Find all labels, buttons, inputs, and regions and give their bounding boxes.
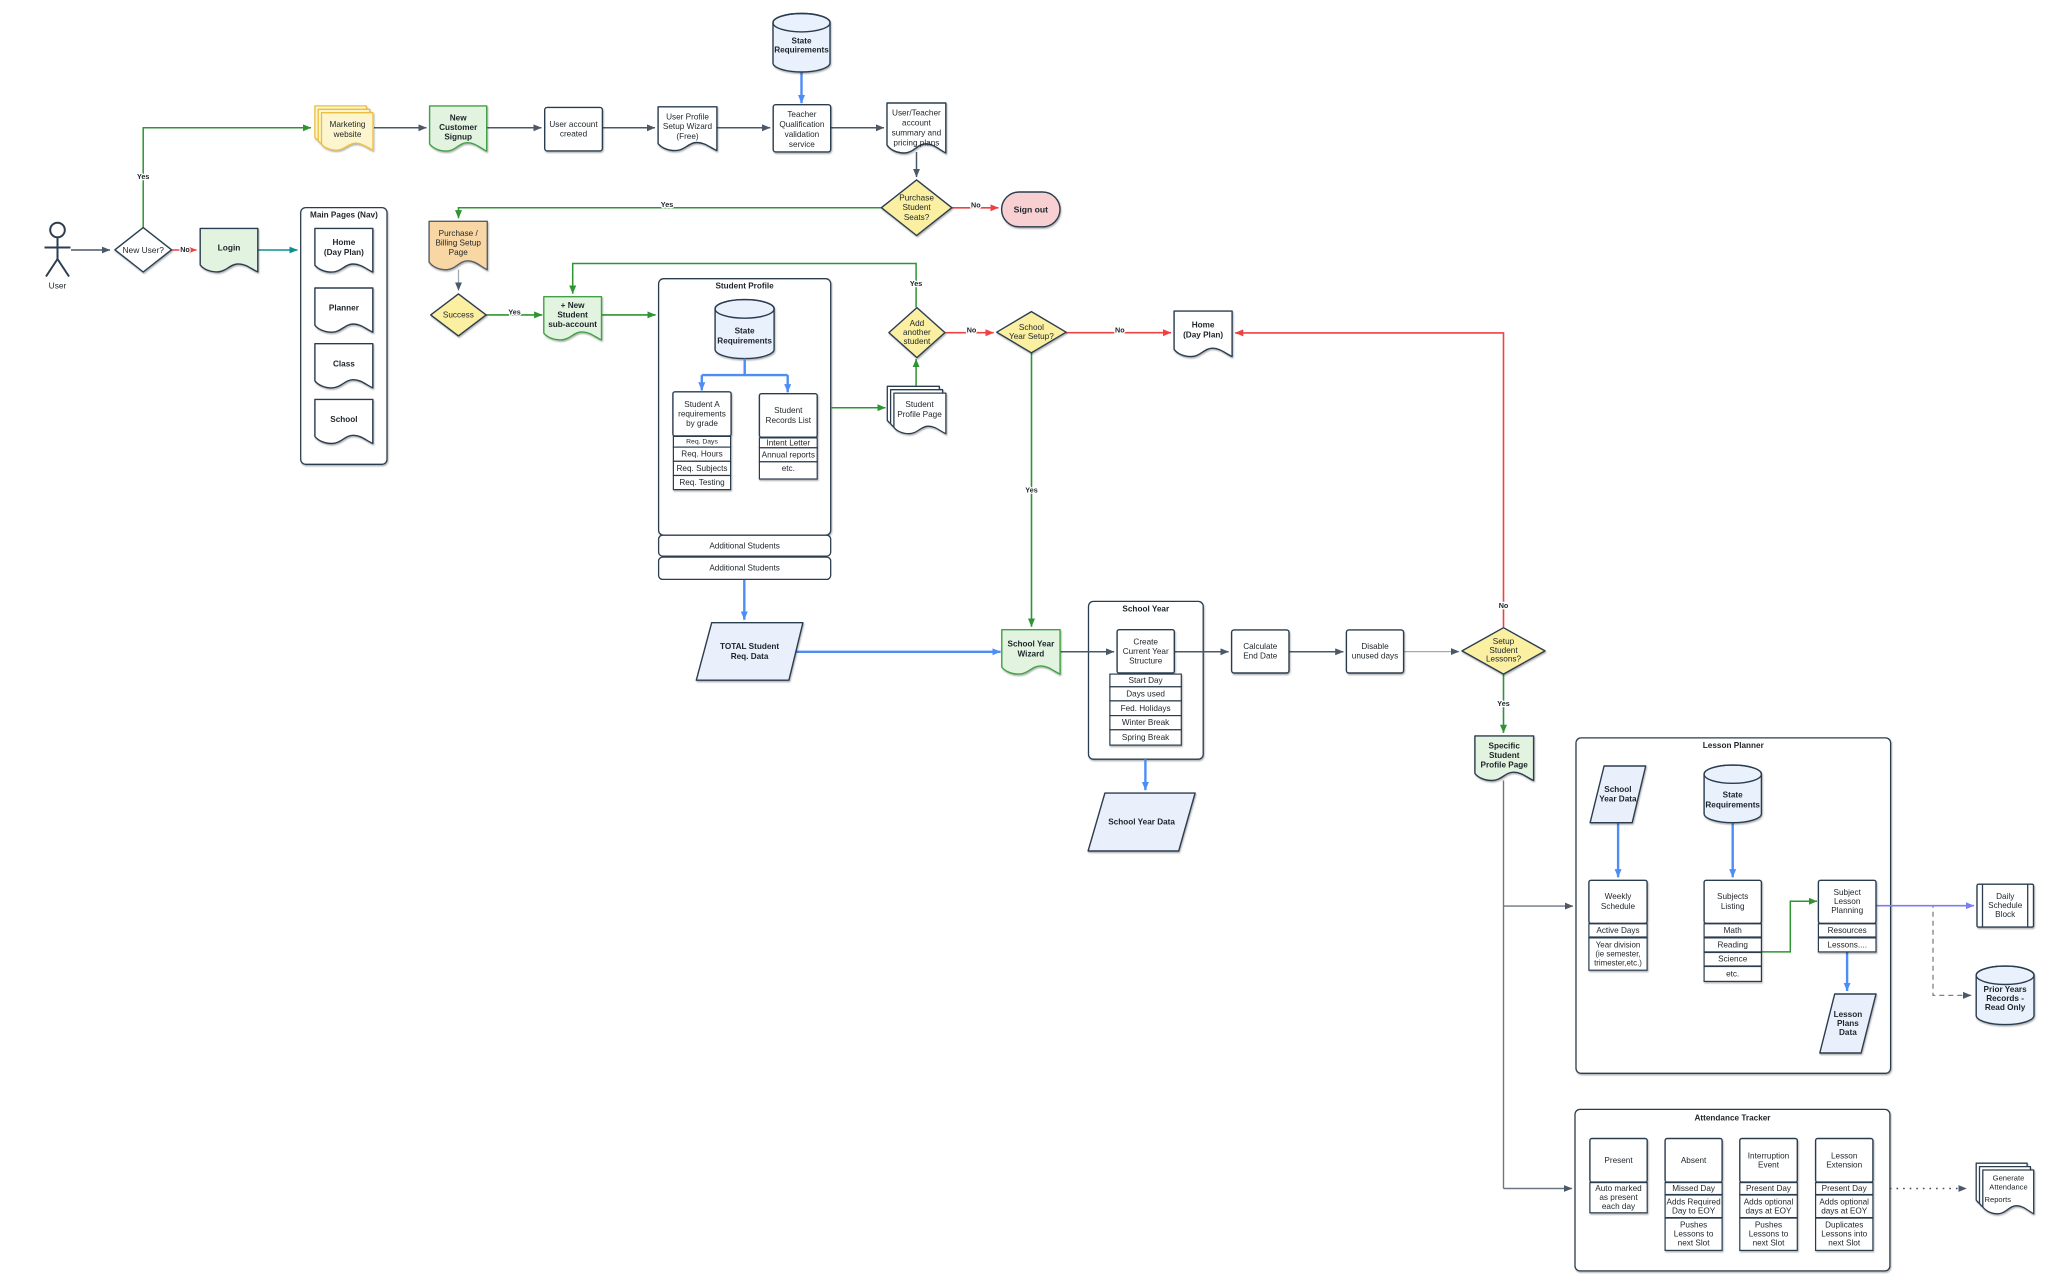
wire School Year Wizard to Create Current Year Structure (1060, 651, 1114, 653)
terminator Sign out (1002, 192, 1060, 227)
container Attendance Tracker (1575, 1109, 1890, 1271)
svg-text:CalculateEnd Date: CalculateEnd Date (1243, 642, 1278, 661)
container Student Profile (659, 279, 831, 536)
wire Attendance Tracker dotted to Generate Attendance Reports (1890, 1188, 1967, 1190)
svg-text:Yes: Yes (1025, 486, 1037, 495)
predefined process Daily Schedule Block (1977, 884, 2034, 927)
svg-text:Adds optionaldays at EOY: Adds optionaldays at EOY (1744, 1197, 1794, 1215)
process Disable unused days (1346, 630, 1403, 673)
wire New User? Yes up to Marketing website (143, 128, 311, 228)
process Teacher Qualification validation service (773, 105, 831, 152)
wire Success Yes to New Student sub-account (486, 314, 542, 316)
database Prior Years Records - Read Only (1976, 966, 2034, 1025)
svg-text:Reports: Reports (1985, 1195, 2012, 1204)
wire School Year Setup? Yes down to School Year Wizard (1031, 353, 1033, 627)
svg-text:Active Days: Active Days (1596, 926, 1639, 935)
wire New User? No to Login (172, 249, 197, 251)
wire New Student sub-account to Student Profile (602, 314, 656, 316)
database State Requirements (773, 14, 830, 73)
document Purchase / Billing Setup Page (429, 221, 487, 269)
svg-text:School Year: School Year (1122, 605, 1170, 614)
wire Teacher Qualification to User/Teacher summary (831, 127, 884, 129)
rows weekly schedule fields (1589, 924, 1647, 970)
process Lesson Extension (1816, 1139, 1873, 1183)
svg-text:Present Day: Present Day (1822, 1184, 1868, 1193)
svg-text:PurchaseStudentSeats?: PurchaseStudentSeats? (899, 194, 934, 222)
svg-text:Winter Break: Winter Break (1122, 718, 1170, 727)
svg-text:School Year Data: School Year Data (1108, 818, 1175, 827)
svg-text:No: No (1499, 601, 1509, 610)
wire Setup Student Lessons? Yes to Specific Student Profile Page (1503, 673, 1505, 733)
svg-text:etc.: etc. (1726, 969, 1739, 978)
wire trunk branch to Lesson Planner (1504, 905, 1574, 907)
wire Student Profile to Student Profile Page (831, 407, 886, 409)
rows interruption (1740, 1183, 1798, 1251)
svg-text:LessonExtension: LessonExtension (1826, 1151, 1862, 1169)
svg-text:Class: Class (333, 359, 355, 368)
process Specific Student Profile Page (1475, 736, 1534, 781)
wire Add another student No to School Year Setup? (945, 332, 993, 334)
process User account created (545, 107, 603, 150)
wire Specific Student Profile Page down trunk (1503, 781, 1505, 1189)
wire New Customer Signup to User account created (487, 127, 542, 129)
svg-text:Yes: Yes (661, 200, 673, 209)
svg-text:Reading: Reading (1717, 940, 1748, 949)
multidocument Marketing website (315, 106, 373, 150)
row Additional Students 2 (659, 557, 831, 579)
dataobject TOTAL Student Req. Data (696, 623, 803, 681)
rows requirement list (673, 436, 730, 489)
wire State Requirements db to Teacher Qualification (800, 71, 802, 103)
row Additional Students 1 (659, 535, 831, 556)
svg-text:Spring Break: Spring Break (1122, 733, 1170, 742)
svg-text:SubjectsListing: SubjectsListing (1717, 892, 1748, 911)
wire School Year Data to Weekly Schedule (1617, 823, 1619, 877)
wire Add another student Yes loop to New Student sub-account (573, 264, 916, 308)
svg-text:Fed. Holidays: Fed. Holidays (1121, 704, 1171, 713)
wire User to New User? (71, 249, 110, 251)
svg-text:Adds optionaldays at EOY: Adds optionaldays at EOY (1819, 1197, 1869, 1215)
svg-text:SubjectLessonPlanning: SubjectLessonPlanning (1831, 888, 1863, 915)
wire Purchase/Billing to Success (458, 270, 460, 291)
rows subjects (1704, 924, 1761, 982)
wire State Requirements db to Subjects Listing (1731, 823, 1733, 877)
wire TOTAL Student Req Data to School Year Wizard (796, 651, 1001, 653)
page School (315, 399, 373, 443)
svg-text:Yes: Yes (1497, 699, 1509, 708)
decision Purchase Student Seats? (881, 180, 951, 236)
svg-text:Req. Hours: Req. Hours (681, 450, 722, 459)
container Lesson Planner (1576, 738, 1891, 1073)
svg-text:Sign out: Sign out (1014, 204, 1049, 214)
rows subject lesson planning (1818, 924, 1876, 952)
svg-text:Year division(ie semester,trim: Year division(ie semester,trimester,etc.… (1594, 940, 1642, 967)
svg-text:Yes: Yes (910, 279, 922, 288)
dataobject School Year Data (1088, 793, 1195, 851)
multidocument Student Profile Page (887, 386, 946, 433)
process Absent (1665, 1139, 1722, 1183)
svg-text:Planner: Planner (329, 304, 360, 313)
svg-text:No: No (971, 200, 981, 209)
process Login (200, 228, 258, 272)
wire Subject Lesson Planning to Daily Schedule Block (1876, 905, 1974, 907)
svg-text:User/Teacheraccountsummary and: User/Teacheraccountsummary andpricing pl… (892, 109, 942, 148)
process + New Student sub-account (544, 297, 602, 340)
page Class (315, 344, 373, 388)
process Interruption Event (1740, 1139, 1798, 1183)
svg-text:No: No (1115, 325, 1125, 334)
wire Login to Main Pages Home (258, 249, 298, 251)
decision Success (431, 294, 486, 336)
svg-text:Main Pages (Nav): Main Pages (Nav) (310, 210, 378, 219)
svg-text:Missed Day: Missed Day (1672, 1184, 1716, 1193)
svg-text:Math: Math (1724, 926, 1743, 935)
svg-text:Resources: Resources (1828, 926, 1867, 935)
wire Setup Student Lessons? No up to Home (1235, 333, 1503, 627)
wire Calculate End Date to Disable unused days (1289, 651, 1343, 653)
svg-text:Lessons....: Lessons.... (1827, 940, 1867, 949)
process Calculate End Date (1232, 630, 1289, 673)
rows lesson extension (1816, 1183, 1873, 1251)
document Home (Day Plan) return (1174, 311, 1232, 357)
process Student Records List (759, 394, 817, 438)
wire User account created to User Profile Setup Wizard (602, 127, 655, 129)
decision Add another student (889, 308, 945, 358)
wire Student Profile Page up to Add another student (915, 359, 917, 386)
process Subject Lesson Planning (1818, 880, 1876, 923)
svg-text:Yes: Yes (508, 307, 520, 316)
svg-text:Science: Science (1718, 955, 1748, 964)
process User Profile Setup Wizard (Free) (658, 107, 717, 151)
svg-text:Absent: Absent (1681, 1156, 1707, 1165)
wire School Year Setup? No to Home (1066, 332, 1171, 334)
process Create Current Year Structure (1117, 630, 1174, 673)
process Student A requirements by grade (673, 392, 731, 436)
wire User/Teacher summary down to Purchase Student Seats? (916, 152, 918, 177)
wire Subjects Listing to Subject Lesson Planning (1761, 901, 1817, 952)
process Weekly Schedule (1589, 880, 1647, 923)
wire School Year to School Year Data (1144, 759, 1146, 790)
wire Purchase Student Seats? Yes to Purchase/Billing Setup Page (459, 208, 882, 219)
process Subjects Listing (1704, 880, 1761, 923)
svg-text:Present: Present (1604, 1156, 1633, 1165)
wire Subject Lesson Planning to Lesson Plans Data (1846, 953, 1848, 992)
svg-text:Prior YearsRecords -Read Only: Prior YearsRecords -Read Only (1984, 985, 2028, 1012)
svg-text:User: User (49, 281, 67, 291)
svg-text:Login: Login (218, 243, 241, 253)
svg-text:Additional Students: Additional Students (709, 541, 780, 550)
container School Year (1089, 601, 1204, 759)
svg-text:Attendance Tracker: Attendance Tracker (1695, 1114, 1772, 1123)
wire User Profile Setup Wizard to Teacher Qualification (717, 127, 770, 129)
svg-text:Req. Subjects: Req. Subjects (677, 464, 728, 473)
svg-text:GenerateAttendance: GenerateAttendance (1989, 1174, 2027, 1192)
page Planner (315, 288, 373, 332)
svg-text:Additional Students: Additional Students (709, 564, 780, 573)
svg-text:New User?: New User? (122, 245, 164, 255)
rows present (1590, 1183, 1647, 1213)
process New Customer Signup (430, 106, 487, 151)
database State Requirements (planner) (1704, 765, 1761, 823)
svg-text:Auto markedas presenteach day: Auto markedas presenteach day (1595, 1184, 1642, 1211)
process Present (1590, 1139, 1647, 1183)
svg-text:School: School (330, 415, 357, 424)
actor User (45, 223, 71, 277)
svg-text:Intent Letter: Intent Letter (766, 438, 810, 447)
multidocument Generate Attendance Reports (1976, 1163, 2034, 1214)
rows school year fields (1110, 674, 1181, 745)
svg-text:Req. Testing: Req. Testing (679, 478, 725, 487)
svg-text:Req. Days: Req. Days (686, 438, 718, 445)
svg-text:Days used: Days used (1126, 689, 1165, 698)
wire dashed to Prior Years Records (1876, 906, 1971, 996)
rows absent (1665, 1183, 1722, 1251)
database State Requirements (student) (715, 300, 774, 359)
wire trunk to Attendance Tracker (1504, 1188, 1573, 1190)
wire Marketing website to New Customer Signup (374, 127, 427, 129)
svg-text:SchoolYear Data: SchoolYear Data (1599, 785, 1637, 804)
svg-text:Lesson Planner: Lesson Planner (1703, 741, 1765, 750)
svg-text:Success: Success (443, 310, 474, 319)
svg-text:Start Day: Start Day (1129, 676, 1164, 685)
container Main Pages (Nav) (301, 208, 387, 465)
page Home (Day Plan) (315, 228, 373, 272)
svg-text:Adds RequiredDay to EOY: Adds RequiredDay to EOY (1667, 1197, 1722, 1215)
decision Setup Student Lessons? (1462, 628, 1545, 674)
wire Purchase Student Seats? No to Sign out (952, 207, 999, 209)
svg-text:etc.: etc. (782, 464, 795, 473)
rows records list (759, 438, 817, 479)
svg-text:Yes: Yes (137, 172, 149, 181)
svg-text:No: No (180, 245, 190, 254)
wire Disable unused days to Setup Student Lessons? (1404, 651, 1460, 653)
svg-text:Annual reports: Annual reports (762, 450, 815, 459)
wire State Requirements split to requirement boxes (744, 359, 746, 376)
decision New User? (115, 228, 172, 272)
svg-text:Student Profile: Student Profile (715, 282, 774, 291)
dataobject Lesson Plans Data (1820, 994, 1876, 1053)
svg-text:Marketingwebsite: Marketingwebsite (330, 120, 366, 139)
svg-text:No: No (967, 325, 977, 334)
document User/Teacher account summary and pricing plans (887, 103, 946, 153)
process School Year Wizard (1002, 630, 1060, 674)
dataobject School Year Data (planner) (1590, 766, 1646, 823)
svg-text:Present Day: Present Day (1746, 1184, 1792, 1193)
wire Additional Students to TOTAL Student Req Data (743, 580, 745, 620)
svg-text:WeeklySchedule: WeeklySchedule (1601, 892, 1636, 911)
decision School Year Setup? (997, 312, 1066, 353)
wire Create Current Year Structure to Calculate End Date (1174, 651, 1228, 653)
